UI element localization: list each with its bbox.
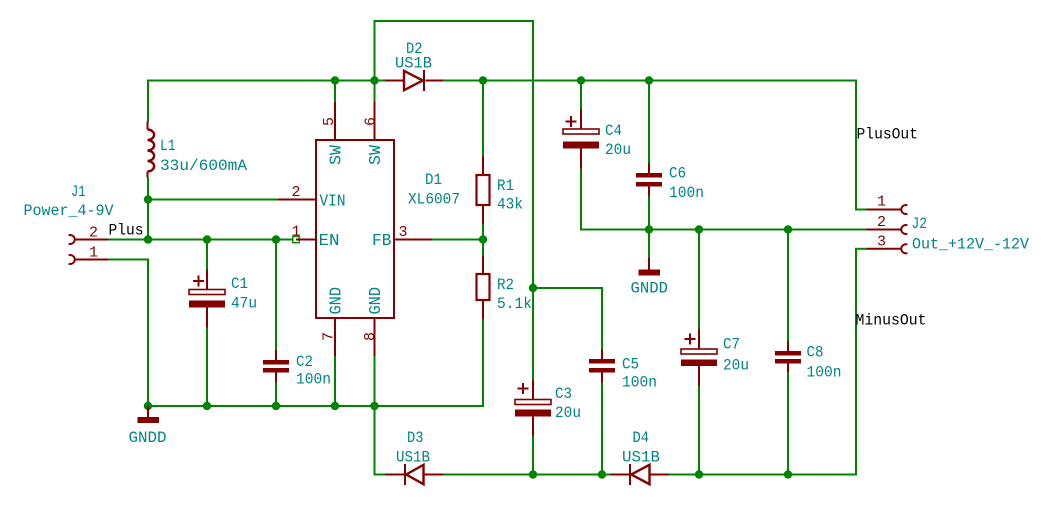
wire R2 column above body bbox=[482, 239, 484, 256]
connector J1 pin 1 bbox=[69, 255, 109, 264]
svg-text:3: 3 bbox=[877, 234, 886, 251]
svg-text:US1B: US1B bbox=[396, 449, 430, 467]
svg-text:VIN: VIN bbox=[320, 193, 346, 212]
capacitor C2 100n bbox=[263, 350, 289, 383]
connector J2 pin 2 bbox=[867, 225, 908, 234]
junction at ground rail x=374.5 bbox=[370, 402, 378, 410]
svg-text:100n: 100n bbox=[669, 184, 704, 202]
svg-text:D1: D1 bbox=[425, 171, 442, 189]
svg-text:FB: FB bbox=[372, 232, 392, 251]
svg-text:GNDD: GNDD bbox=[129, 429, 167, 447]
svg-text:C6: C6 bbox=[669, 165, 686, 183]
wire ground rail y=406 bbox=[148, 405, 484, 407]
wire C7 column below bbox=[698, 386, 700, 475]
svg-text:PlusOut: PlusOut bbox=[857, 126, 919, 144]
pin 1 EN pin line bbox=[296, 239, 316, 241]
capacitor C7 20u polarized bbox=[681, 329, 717, 387]
connector J2 pin 3 bbox=[867, 244, 908, 253]
wire main top rail y=80.5 left of D2 bbox=[148, 80, 385, 82]
junction at EN row x=207 bbox=[203, 235, 211, 243]
capacitor C4 20u polarized bbox=[563, 109, 599, 169]
svg-text:D3: D3 bbox=[407, 429, 424, 447]
svg-text:7: 7 bbox=[321, 332, 338, 341]
junction at FB node bbox=[479, 235, 487, 243]
wire EN row y=239.5 bbox=[147, 239, 293, 241]
wire right vertical x=856 MinusOut bbox=[855, 249, 857, 476]
junction at C4 top bbox=[577, 76, 585, 84]
wire bottom rail left segment bbox=[374, 474, 386, 476]
svg-text:R1: R1 bbox=[497, 177, 514, 195]
svg-text:100n: 100n bbox=[296, 371, 331, 389]
pin 5 SW pin line bbox=[334, 102, 336, 140]
wire IC pin7 below to ground rail bbox=[334, 356, 336, 406]
wire C3 column below bbox=[532, 436, 534, 475]
ground GNDD left symbol bbox=[138, 406, 160, 423]
wire VIN row y=199.5 bbox=[147, 199, 278, 201]
wire main top rail y=80.5 right of D2 bbox=[443, 80, 856, 82]
svg-text:1: 1 bbox=[877, 194, 886, 211]
diode D3 US1B bbox=[385, 464, 443, 485]
wire C1 column below bbox=[206, 328, 208, 407]
wire C5 column x=602 above bbox=[601, 287, 603, 349]
svg-text:5.1k: 5.1k bbox=[497, 295, 532, 313]
wire C1 column x=207 above bbox=[206, 239, 208, 270]
svg-text:J2: J2 bbox=[912, 215, 928, 233]
junction at node x=533 y=288 bbox=[529, 284, 537, 292]
svg-text:20u: 20u bbox=[605, 141, 631, 159]
svg-text:33u/600mA: 33u/600mA bbox=[160, 157, 247, 175]
pin 6 SW pin line bbox=[374, 102, 376, 140]
svg-text:GNDD: GNDD bbox=[631, 280, 669, 298]
svg-text:20u: 20u bbox=[555, 404, 581, 422]
junction at pin6 top bbox=[370, 76, 378, 84]
svg-text:100n: 100n bbox=[807, 364, 842, 382]
junction at right rail x=699 bbox=[695, 225, 703, 233]
wire C2 column x=276 above bbox=[275, 239, 277, 351]
svg-text:1: 1 bbox=[89, 245, 98, 262]
wire top loop vertical x=374.5 bbox=[374, 21, 376, 81]
svg-text:US1B: US1B bbox=[395, 55, 432, 73]
svg-text:6: 6 bbox=[363, 117, 380, 126]
wire left column x=148 L1 to EN row bbox=[147, 178, 149, 240]
svg-text:8: 8 bbox=[362, 332, 379, 341]
svg-text:1: 1 bbox=[292, 224, 301, 241]
svg-text:L1: L1 bbox=[160, 137, 176, 155]
pin 3 FB pin line bbox=[394, 239, 432, 241]
wire end square at EN pin bbox=[293, 236, 299, 242]
wire C8 column x=788 above bbox=[787, 230, 789, 342]
wire GNDD right stem wire bbox=[648, 230, 650, 259]
svg-text:Plus: Plus bbox=[109, 222, 144, 240]
junction at ground rail x=276 bbox=[272, 402, 280, 410]
svg-text:J1: J1 bbox=[71, 183, 86, 201]
svg-text:C7: C7 bbox=[723, 336, 740, 354]
wire J1 pin2 green segment bbox=[109, 239, 149, 241]
svg-text:2: 2 bbox=[89, 225, 98, 242]
wire right rail y=229.5 bbox=[580, 229, 867, 231]
wire loop right vertical x=533 down to node y=288 bbox=[532, 20, 534, 288]
junction at EN row x=148 bbox=[144, 235, 152, 243]
capacitor C1 47u polarized bbox=[189, 270, 225, 328]
svg-text:GND: GND bbox=[328, 287, 347, 315]
resistor R2 bbox=[477, 256, 490, 320]
svg-text:C3: C3 bbox=[555, 385, 572, 403]
junction at ground rail x=148 bbox=[144, 402, 152, 410]
resistor R1 bbox=[477, 156, 490, 224]
svg-text:GND: GND bbox=[367, 287, 386, 315]
svg-text:XL6007: XL6007 bbox=[408, 191, 460, 209]
capacitor C8 100n bbox=[775, 341, 801, 373]
svg-text:Power_4-9V: Power_4-9V bbox=[24, 202, 114, 220]
svg-text:C5: C5 bbox=[622, 356, 639, 374]
svg-text:100n: 100n bbox=[622, 374, 657, 392]
wire C4 column below to right rail corner bbox=[580, 149, 582, 231]
pin 7 GND pin line bbox=[334, 318, 336, 356]
junction at R1 top bbox=[479, 76, 487, 84]
svg-text:MinusOut: MinusOut bbox=[856, 312, 927, 330]
svg-text:47u: 47u bbox=[231, 295, 257, 313]
capacitor C3 20u polarized bbox=[515, 380, 551, 436]
wire C4 column x=581 above bbox=[580, 80, 582, 110]
svg-text:SW: SW bbox=[328, 144, 347, 165]
ground GNDD right symbol bbox=[639, 258, 661, 276]
svg-text:US1B: US1B bbox=[622, 449, 660, 467]
op-amp U1 : IC D1 XL6007 body outline bbox=[316, 140, 394, 318]
wire IC pin6 stub above bbox=[374, 80, 376, 103]
wire IC pin8 below down to bottom rail bbox=[374, 356, 376, 476]
svg-text:5: 5 bbox=[321, 117, 338, 126]
junction at bottom rail x=788 bbox=[784, 470, 792, 478]
svg-text:20u: 20u bbox=[723, 357, 749, 375]
svg-text:SW: SW bbox=[367, 144, 386, 165]
wire bottom rail D4 to right corner bbox=[669, 474, 858, 476]
wire C6 column below bbox=[648, 187, 650, 230]
svg-text:R2: R2 bbox=[497, 276, 514, 294]
connector J1 pin 2 bbox=[69, 235, 109, 244]
wire R1 column x=483 above body bbox=[482, 80, 484, 157]
svg-text:C1: C1 bbox=[231, 275, 248, 293]
junction at C6 top bbox=[645, 76, 653, 84]
wire C6 column x=649 above bbox=[648, 80, 650, 164]
junction at bottom rail x=602 bbox=[598, 470, 606, 478]
diode D4 US1B bbox=[611, 464, 669, 485]
svg-text:D4: D4 bbox=[633, 429, 650, 447]
junction at EN row x=276 bbox=[272, 235, 280, 243]
svg-text:EN: EN bbox=[319, 232, 340, 251]
wire left column x=148 top (to L1) bbox=[147, 80, 149, 123]
wire R1 column x=483 below body bbox=[482, 224, 484, 241]
wire C2 column below bbox=[275, 383, 277, 407]
wire C3 column x=533 above bbox=[532, 288, 534, 380]
wire C8 column below bbox=[787, 373, 789, 475]
junction at bottom rail x=699 bbox=[695, 470, 703, 478]
svg-text:2: 2 bbox=[292, 184, 301, 201]
wire R2 column below body to ground rail bbox=[482, 319, 484, 407]
capacitor C5 100n bbox=[589, 349, 615, 383]
diode D2 US1B bbox=[385, 70, 443, 91]
junction at bottom rail x=533 bbox=[529, 470, 537, 478]
wire J2 pin1 green stub bbox=[855, 209, 867, 211]
svg-text:C4: C4 bbox=[605, 122, 622, 140]
svg-text:3: 3 bbox=[399, 224, 408, 241]
svg-text:43k: 43k bbox=[497, 196, 523, 214]
wire J2 pin3 green stub bbox=[855, 248, 867, 250]
svg-text:Out_+12V_-12V: Out_+12V_-12V bbox=[912, 236, 1029, 254]
wire node row y=288 to C5 bbox=[533, 287, 602, 289]
pin 2 VIN pin line bbox=[278, 199, 316, 201]
pin 8 GND pin line bbox=[374, 318, 376, 356]
svg-text:C8: C8 bbox=[807, 344, 824, 362]
wire left column x=148 J1 pin1 down to ground rail bbox=[147, 260, 149, 407]
junction at ground rail x=207 bbox=[203, 402, 211, 410]
junction at pin5 top bbox=[331, 76, 339, 84]
junction at VIN row bbox=[144, 195, 152, 203]
junction at right rail x=649 bbox=[645, 225, 653, 233]
wire right vertical x=856 PlusOut bbox=[855, 80, 857, 210]
wire C7 column x=699 above bbox=[698, 230, 700, 329]
junction at right rail x=788 bbox=[784, 225, 792, 233]
wire IC pin5 stub above bbox=[334, 80, 336, 103]
svg-text:C2: C2 bbox=[296, 353, 313, 371]
svg-text:2: 2 bbox=[877, 214, 886, 231]
junction at ground rail x=335 bbox=[331, 402, 339, 410]
wire C5 column below bbox=[601, 383, 603, 475]
wire bottom rail D3 to D4 bbox=[443, 474, 611, 476]
capacitor C6 100n bbox=[636, 163, 662, 197]
wire top loop horizontal y=21 bbox=[374, 20, 535, 22]
connector J2 pin 1 bbox=[867, 205, 908, 214]
wire J1 pin1 green segment bbox=[109, 259, 150, 261]
wire FB pin to junction bbox=[432, 239, 484, 241]
inductor L1 bbox=[148, 122, 155, 178]
